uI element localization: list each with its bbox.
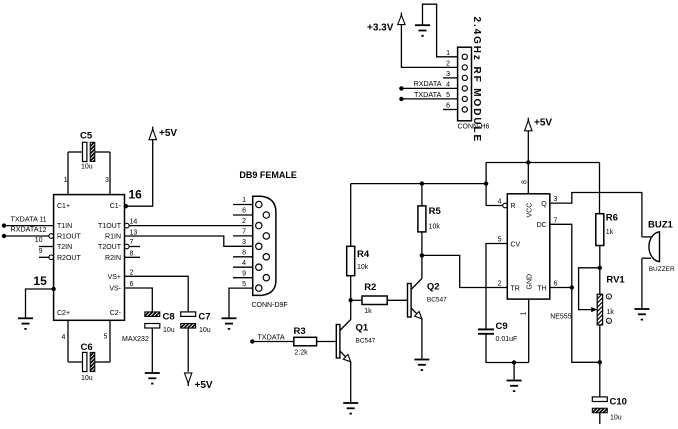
svg-text:9: 9 [242,270,246,277]
svg-text:1: 1 [242,197,246,204]
svg-text:1: 1 [64,177,68,184]
junction dot TXDATA [2,223,6,227]
wire R4 bottom to junction [350,276,352,301]
wire Q2 collector junction to TR pin 2 [422,255,507,287]
svg-text:CONN-D9F: CONN-D9F [252,302,288,309]
resistor R4 [347,246,370,275]
wire C10 bottom stub [599,413,601,424]
wire RF pin1 to ground [423,4,458,57]
resistor R3 [294,326,317,357]
svg-text:2: 2 [242,218,246,225]
buzzer BUZ1 [642,220,675,274]
svg-text:R5: R5 [429,206,442,217]
svg-text:R4: R4 [357,249,370,260]
svg-text:R: R [511,203,516,210]
connector J1 DB9 FEMALE [239,170,297,309]
resistor R2 [362,282,387,315]
power +5V (MAX232) [149,127,177,140]
wire C6 loop [68,361,83,363]
junction dot Q1 collector / R4 / R2 [349,298,353,302]
svg-text:8: 8 [130,250,134,257]
svg-text:10u: 10u [163,327,175,334]
svg-text:5: 5 [242,281,246,288]
svg-text:TXDATA: TXDATA [414,90,441,99]
Q1 collector [340,320,351,331]
wire pin15 to ground [26,289,54,318]
pin bubble R pin 4 [503,203,508,208]
node RXDATA (left input to R1OUT pin 12) [11,225,47,234]
capacitor C9 [478,321,517,343]
svg-text:+3.3V: +3.3V [367,23,394,34]
capacitor C8 [145,312,175,335]
wire C7 to +5V (down arrow) [187,328,189,372]
wire R5 top to +5V rail [421,184,423,206]
svg-text:RXDATA: RXDATA [414,79,442,88]
wire R6 bottom to RV1 [599,246,601,295]
svg-text:2: 2 [130,269,134,276]
svg-text:DC: DC [537,222,547,229]
svg-text:12: 12 [39,227,47,234]
wire RF pin5 [401,98,458,100]
svg-text:CONN-H6: CONN-H6 [458,124,490,131]
svg-text:TXDATA: TXDATA [257,333,284,342]
svg-text:3: 3 [242,239,246,246]
svg-text:NE555: NE555 [550,314,572,321]
svg-text:0.01uF: 0.01uF [496,336,518,343]
junction dot pin16 [124,204,128,208]
junction dot TH/DC [570,285,574,289]
wire rail to R6 top [599,163,601,214]
capacitor C10 [592,397,627,422]
svg-text:VCC: VCC [526,203,533,218]
svg-text:C1+: C1+ [57,203,70,210]
wire TXDATA to T1IN [4,225,54,227]
svg-text:1: 1 [521,312,528,316]
svg-text:R2OUT: R2OUT [57,255,81,262]
svg-text:C2+: C2+ [57,310,70,317]
svg-text:10u: 10u [81,375,93,382]
svg-text:11: 11 [39,216,46,223]
svg-text:R1OUT: R1OUT [57,234,81,241]
svg-text:8: 8 [242,250,246,257]
svg-text:GND: GND [526,274,533,290]
svg-text:6: 6 [446,103,450,110]
svg-text:VS+: VS+ [108,274,121,281]
svg-text:RV1: RV1 [606,275,625,286]
wire RF pin2 to +3.3V [401,25,457,68]
pin bubble T1OUT pin 14 [125,223,130,228]
svg-text:T1IN: T1IN [57,223,72,230]
power +3.3V [367,13,405,34]
wire C5 loop [68,151,83,153]
svg-text:BC547: BC547 [356,338,376,345]
junction dot RV1 bottom [598,360,602,364]
svg-text:TR: TR [511,285,520,292]
ground (Q1 emitter) [343,403,358,414]
wire +5V to VCC pin 8 [527,131,529,194]
wire buzzer to ground [641,258,643,309]
ground (C8) [145,373,160,384]
svg-text:4: 4 [446,82,450,89]
wire R3 to Q1 base [317,341,337,343]
svg-text:2: 2 [498,281,502,288]
wire gnd stem [513,363,515,381]
svg-text:MAX232: MAX232 [122,336,149,343]
ground (DB9 pin5) [222,318,237,329]
junction dot +5V rail [526,160,530,164]
svg-text:3: 3 [554,196,558,203]
svg-text:3: 3 [105,177,109,184]
ground (pin15) [18,318,33,329]
wire RV1 bottom to rail [599,325,601,362]
transistor Q1 BC547 [336,300,375,403]
svg-text:1k: 1k [607,309,615,316]
svg-text:10u: 10u [199,327,211,334]
pin bubble R1OUT pin 12 [49,234,54,239]
junction dot Q2 collector / R5 / TR wire [420,253,424,257]
MAX232 U1 body [54,195,149,343]
svg-text:6: 6 [130,281,134,288]
svg-text:2: 2 [446,61,450,68]
svg-text:R6: R6 [606,213,618,224]
power +5V down (C7) [185,373,213,391]
wiper arrowhead [591,307,597,312]
svg-text:R2IN: R2IN [105,255,121,262]
svg-text:TXDATA: TXDATA [11,214,38,223]
svg-text:10u: 10u [81,163,93,170]
pin bubble T2OUT pin 7 [125,244,130,249]
svg-text:10k: 10k [357,264,369,271]
wire C9 bottom to gnd rail [486,334,529,363]
capacitor C6 [81,342,95,382]
timer U2 NE555 body [507,194,571,321]
svg-text:BC547: BC547 [427,297,447,304]
wire junction to R2 [351,299,362,301]
wire R4 top to +5V rail [350,184,352,247]
svg-text:9: 9 [39,248,43,255]
junction dot R5 top rail [420,181,424,185]
svg-text:Q2: Q2 [427,282,440,293]
svg-text:5: 5 [498,237,502,244]
Q2 emitter with arrow [411,308,417,314]
svg-text:R3: R3 [294,326,306,337]
svg-text:Q1: Q1 [356,323,369,334]
svg-text:C8: C8 [163,312,175,323]
svg-text:10k: 10k [429,224,441,231]
Q2 collector [411,279,422,290]
wire down to C10 [599,362,601,397]
connector J2 2.4GHz RF MODULE [458,17,490,144]
svg-text:+5V: +5V [195,380,213,391]
resistor R5 [418,206,442,232]
ground (RF module) [415,25,430,36]
wire T1OUT to DB9 pin2 [129,225,253,227]
power +5V (555 section) [525,118,553,131]
svg-text:R1IN: R1IN [105,234,121,241]
wire rail to reset pin 4 [486,184,503,206]
node TXDATA (left input to T1IN pin 11) [11,214,47,223]
svg-text:10: 10 [35,237,43,244]
svg-text:15: 15 [33,274,47,288]
svg-text:DB9 FEMALE: DB9 FEMALE [239,170,297,180]
Q1 emitter with arrow [340,351,346,357]
svg-text:T1OUT: T1OUT [98,223,122,230]
wire C8 to ground [151,328,153,373]
pin bubble R2OUT pin 9 [49,255,54,260]
junction dot RXDATA [2,234,6,238]
wire TXDATA to R3 [252,341,293,343]
junction dot pin15 [51,287,55,291]
svg-text:+5V: +5V [534,118,552,129]
svg-text:5: 5 [104,334,108,341]
svg-text:6: 6 [554,281,558,288]
wire RXDATA to R1OUT [4,235,49,237]
svg-text:7: 7 [554,217,558,224]
wire +5V rail [351,163,600,184]
capacitor C7 [181,312,211,335]
svg-text:TH: TH [537,285,546,292]
wire TH junction down to RV1 bottom rail [572,288,600,363]
svg-text:1k: 1k [364,308,372,315]
wire R5 bottom to junction [421,232,423,256]
svg-text:10u: 10u [610,414,622,421]
svg-text:C5: C5 [80,131,93,142]
svg-text:C7: C7 [198,312,210,323]
potentiometer RV1 [597,275,625,325]
svg-text:13: 13 [130,229,138,236]
svg-text:4: 4 [242,260,246,267]
svg-text:C9: C9 [496,321,508,332]
svg-text:BUZ1: BUZ1 [648,220,674,231]
svg-text:6: 6 [242,208,246,215]
svg-text:VS-: VS- [109,286,121,293]
svg-text:1: 1 [446,50,450,57]
svg-text:Q: Q [541,201,547,208]
svg-text:7: 7 [242,229,246,236]
svg-text:2.2k: 2.2k [294,350,308,357]
wire RV1 wiper loop [579,268,600,310]
svg-text:1k: 1k [606,229,614,236]
wire R1IN to DB9 pin3 (with jog) [125,236,253,246]
svg-text:C1-: C1- [110,203,122,210]
svg-text:4: 4 [498,199,502,206]
svg-text:14: 14 [130,219,138,226]
svg-text:4: 4 [62,334,66,341]
svg-text:CV: CV [511,241,521,248]
svg-text:7: 7 [130,239,134,246]
svg-text:T2OUT: T2OUT [98,244,122,251]
svg-text:RXDATA: RXDATA [11,225,39,234]
wire RF pin4 [401,87,458,89]
junction dot R6/RV1/wiper [598,266,602,270]
wire R2 to Q2 base [387,299,407,301]
svg-text:BUZZER: BUZZER [649,266,675,273]
ground (555 / C9) [507,381,522,392]
svg-text:8: 8 [522,180,529,184]
capacitor C5 [80,131,95,171]
svg-text:R2: R2 [364,282,376,293]
svg-text:C2-: C2- [110,310,122,317]
svg-text:3: 3 [446,71,450,78]
svg-text:5: 5 [446,92,450,99]
junction dot rail corner [484,181,488,185]
svg-text:+5V: +5V [159,128,177,139]
wire T2OUT stub [129,246,140,248]
svg-text:T2IN: T2IN [57,244,72,251]
ground (Q2 emitter) [414,360,429,371]
resistor R6 [596,213,618,246]
ground (BUZ1) [634,309,649,320]
svg-text:C6: C6 [81,342,93,353]
transistor Q2 BC547 [408,255,448,359]
svg-text:16: 16 [129,188,143,202]
svg-text:C10: C10 [610,397,627,408]
junction dot gnd rail [512,360,516,364]
